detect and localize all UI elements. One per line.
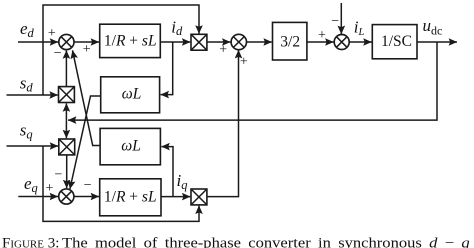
wire: sum1 output to box1 [74,41,99,43]
svg-text:1/R + sL: 1/R + sL [104,188,157,205]
wire: i_q tap up into wL-bot right side [161,147,173,197]
svg-text:−: − [54,46,62,61]
multiplier X2 (s_d x u_dc) [59,87,75,103]
wire: sum2 output to box2 [74,196,99,198]
wire: s_d lead into X2 [7,94,58,96]
svg-text:The model of three-phase conve: The model of three-phase converter in sy… [62,235,470,248]
svg-text:sd: sd [20,73,34,94]
svg-text:−: − [331,14,339,29]
wire: s_d riser + top bus to X1 top [43,5,199,95]
multiplier X1 (s_d x i_d) [191,34,207,50]
svg-text:+: + [46,181,54,196]
wire: s_q lead into X3 [7,145,59,147]
block 1/SC [372,25,417,59]
svg-text:+: + [318,28,326,43]
svg-text:ed: ed [20,19,35,40]
svg-text:−: − [84,178,92,193]
multiplier X3 (s_q x u_dc) [59,139,75,155]
svg-text:ωL: ωL [122,85,142,102]
wire: X2 output up into sum1 (minus) [65,50,67,86]
wire: i_L drop into sum4 [340,3,342,34]
wire: sum4 output to 1/SC box [349,41,371,43]
block wL (bottom) [100,128,160,164]
wire: s_q riser down, bottom bus, up into X4 bottom [43,146,199,221]
wire: e_d lead into sum1 [18,41,58,43]
svg-text:1/R + sL: 1/R + sL [104,33,157,50]
svg-text:udc: udc [423,16,443,38]
summing junction sum3 [231,34,246,49]
block 1/R+sL (d axis) [100,24,161,57]
multiplier X4 (s_q x i_q) [191,189,207,205]
wire: X3 output down into sum2 (minus) [66,155,68,188]
wire: X1 output to sum3 [207,41,231,43]
summing junction sum2 (e_q) [59,189,74,204]
svg-text:+: + [240,54,248,69]
wire: box2 output to X4 [161,196,190,198]
block 1/R+sL (q axis) [100,179,161,216]
svg-text:id: id [171,17,183,38]
wire: box1 output to X1 [160,41,190,43]
svg-text:3/2: 3/2 [280,33,300,50]
svg-text:+: + [219,43,227,58]
svg-text:FIGURE 3:: FIGURE 3: [2,235,59,248]
wire: X4 output right and up into sum3 (plus) [207,50,239,197]
wire: sum3 output to 3/2 box [247,41,272,43]
wire: wL-bot output diagonal up into sum1 (plus) [73,50,101,145]
wire: u_dc branch down into X3 top [65,120,67,138]
wire: u_dc branch up into X2 bottom [65,103,67,120]
wire: e_q lead into sum2 [18,196,58,198]
block wL (top) [101,77,160,113]
wire: u_dc output arrow [417,41,457,43]
svg-text:iq: iq [177,171,188,192]
svg-text:eq: eq [24,174,38,195]
svg-text:iL: iL [354,17,365,37]
svg-text:sq: sq [20,121,33,142]
svg-text:ωL: ωL [121,137,141,154]
svg-text:+: + [83,42,91,57]
summing junction sum1 (e_d) [59,34,74,49]
wire: u_dc feedback riser down and left to multiplier column [68,42,437,120]
wire: 3/2 output to sum4 [307,41,334,43]
svg-text:+: + [48,26,56,41]
block 3/2 [273,22,307,60]
wire: wL-top output diagonal down into sum2 (minus) [70,96,101,189]
svg-text:−: − [54,167,62,182]
svg-text:1/SC: 1/SC [381,33,412,50]
wire: i_d tap down into wL-top right side [161,42,173,95]
summing junction sum4 (i_L) [334,35,349,50]
